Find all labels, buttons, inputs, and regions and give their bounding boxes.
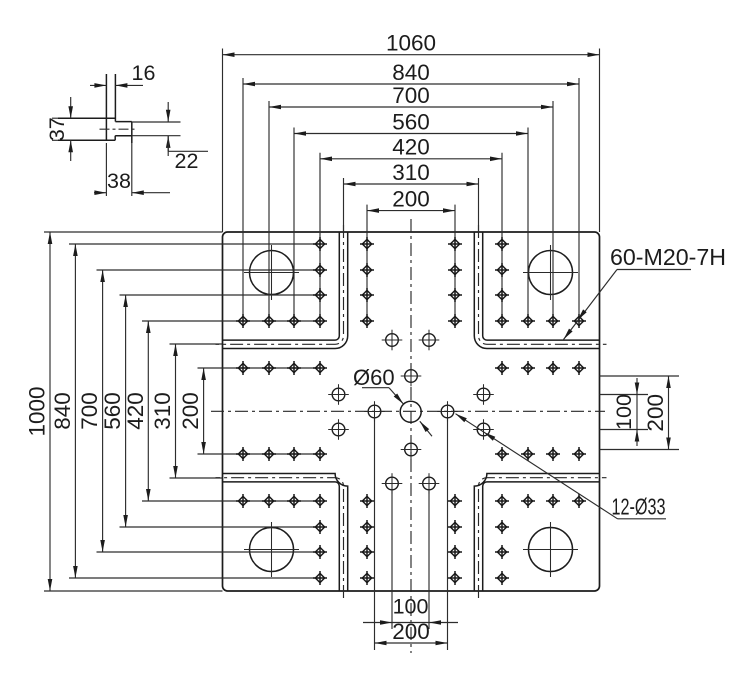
svg-text:60-M20-7H: 60-M20-7H [610,244,726,270]
O33 hole left pair T [328,384,349,405]
O33 hole top pair R [419,330,440,351]
extension line column 420R [501,153,503,321]
extension line plate top edge to 1000 dim [44,231,223,233]
O33 hole right middle [437,401,458,422]
T-slot contour top-left (solid outer) [223,232,340,340]
dimension 560 vertical [100,295,128,527]
extension line column 200R [454,205,456,321]
M20 tapped hole bottom-left block (294,501) [287,494,301,508]
M20 tapped hole top-right block (502,321) [495,314,509,328]
M20 tapped hole bottom strip (455,552) [448,545,462,559]
svg-text:22: 22 [175,149,199,173]
dimension 420 vertical [123,321,151,501]
dimension 200 horizontal [367,186,455,213]
M20 tapped hole right strip (553,368) [546,361,560,375]
M20 tapped hole left strip (320,368) [313,361,327,375]
M20 tapped hole left strip (269,454) [262,447,276,461]
M20 tapped hole bottom strip (455,527) [448,520,462,534]
extension line row 700B [97,551,321,553]
M20 tapped hole bottom-left block (243,501) [236,494,250,508]
extension line plate bottom edge to 1000 dim [44,590,223,592]
M20 tapped hole top-right block (528,321) [521,314,535,328]
leader O60 pointing at center hole [353,365,432,436]
dimension 560 horizontal [294,109,528,136]
dimension 200 vertical [178,368,206,454]
extension line column 200L [366,205,368,321]
svg-text:1000: 1000 [25,386,50,436]
M20 tapped hole top-right block (553,321) [546,314,560,328]
extension line column 700L [268,101,270,321]
M20 tapped hole right strip (528,454) [521,447,535,461]
svg-text:37: 37 [45,117,69,141]
extension line row 420T [142,320,320,322]
M20 tapped hole left strip (243,454) [236,447,250,461]
dimension 38 (slot bottom width) [94,143,170,196]
M20 tapped hole left strip (294,368) [287,361,301,375]
T-slot centerline top-left [216,225,344,344]
extension line hole col x392 down [391,489,393,629]
O33 hole lower middle [401,439,422,460]
extension line slot 310L [343,178,345,232]
M20 tapped hole top-right block (579,321) [572,314,586,328]
svg-text:420: 420 [392,135,430,160]
tie-bar hole bottom-right [523,522,578,577]
extension line hole row y376 [600,375,680,377]
extension line hole row y429.5 [600,429,649,431]
extension line row 840T [69,243,320,245]
M20 tapped hole bottom-left block (320,552) [313,545,327,559]
tie-bar hole top-right [523,245,578,300]
dimension 22 (slot lip height) [132,102,208,173]
M20 tapped hole bottom strip (367,501) [360,494,374,508]
dimension 700 vertical [77,270,105,552]
extension line hole row y449.5 [600,449,680,451]
extension line plate right edge to 1060 dim [599,49,601,233]
T-slot contour bottom-left (solid outer) [223,482,340,591]
svg-text:38: 38 [107,169,131,193]
T-slot contour top-left (solid inner) [223,232,348,349]
M20 tapped hole top strip (455,270) [448,263,462,277]
M20 tapped hole bottom strip (367,527) [360,520,374,534]
T-slot contour bottom-left (solid inner) [223,474,348,592]
dimension 1000 (plate height) [25,232,53,591]
platen plate outline [223,232,600,591]
svg-text:200: 200 [643,394,668,432]
extension line plate left edge to 1060 dim [222,49,224,233]
O33 hole left pair B [328,419,349,440]
O33 hole upper middle [401,366,422,387]
dimension 100 vertical right [612,378,639,446]
extension line column 840R [578,78,580,321]
leader 12-O33 pointing at O33 holes [456,414,667,520]
M20 tapped hole top-left block (320,321) [313,314,327,328]
M20 tapped hole right strip (502,368) [495,361,509,375]
T-slot contour top-right (solid outer) [483,232,600,340]
detail view T-slot profile [58,74,132,143]
svg-text:200: 200 [178,392,203,430]
M20 tapped hole bottom-right block (502,527) [495,520,509,534]
horizontal centerline [211,410,605,412]
dimension 200 vertical right [643,376,671,450]
O33 hole left middle [364,401,385,422]
M20 tapped hole top-right block (502,244) [495,237,509,251]
leader 60-M20-7H pointing at M20 hole [564,244,727,340]
M20 tapped hole left strip (269,368) [262,361,276,375]
svg-text:200: 200 [392,619,430,644]
tie-bar hole top-left [244,245,299,300]
tie-bar hole bottom-left [244,522,299,577]
extension line row 560B [120,526,321,528]
M20 tapped hole right strip (579,368) [572,361,586,375]
M20 tapped hole bottom-left block (320,501) [313,494,327,508]
svg-text:12-Ø33: 12-Ø33 [612,494,666,520]
extension line hole col x429 down [428,489,430,629]
M20 tapped hole top-right block (502,270) [495,263,509,277]
svg-text:420: 420 [123,392,148,430]
extension line hole col x447.5 down [447,417,449,650]
M20 tapped hole bottom-right block (502,552) [495,545,509,559]
extension line row 200T [198,367,321,369]
svg-text:100: 100 [393,595,429,619]
extension line row 420B [142,500,320,502]
M20 tapped hole top-left block (294,321) [287,314,301,328]
svg-text:560: 560 [100,392,125,430]
dimension 16 (slot neck width) [90,61,155,88]
vertical centerline [410,219,412,653]
M20 tapped hole bottom strip (455,501) [448,494,462,508]
M20 tapped hole bottom-right block (502,578) [495,571,509,585]
dimension 100 horizontal bottom [363,595,458,625]
dimension 310 horizontal [344,160,479,187]
O33 hole bottom pair R [419,473,440,494]
dimension 1060 (plate width) [223,31,600,58]
M20 tapped hole bottom-right block (553,501) [546,494,560,508]
M20 tapped hole bottom-right block (579,501) [572,494,586,508]
extension line row 700T [97,269,321,271]
M20 tapped hole right strip (553,454) [546,447,560,461]
T-slot contour bottom-right (solid outer) [483,482,600,591]
O33 hole right pair T [473,384,494,405]
extension line slot 310B [170,477,223,479]
svg-text:840: 840 [392,60,430,85]
extension line slot 310R [478,178,480,232]
T-slot contour bottom-right (solid inner) [474,474,599,592]
T-slot contour top-right (solid inner) [474,232,599,349]
dimension 37 (slot depth) [45,97,73,161]
center hole O60 [400,401,421,422]
M20 tapped hole top strip (367,295) [360,288,374,302]
extension line column 420L [319,153,321,321]
dimension 420 horizontal [320,135,502,162]
M20 tapped hole left strip (243,368) [236,361,250,375]
M20 tapped hole bottom-left block (320,527) [313,520,327,534]
svg-text:560: 560 [392,109,430,134]
extension line row 840B [69,577,320,579]
M20 tapped hole top-right block (502,295) [495,288,509,302]
svg-text:700: 700 [77,392,102,430]
T-slot centerline top-right [479,225,607,344]
dimension 840 horizontal [243,60,579,87]
svg-text:1060: 1060 [386,31,436,56]
svg-text:100: 100 [612,394,636,430]
M20 tapped hole top-left block (320,270) [313,263,327,277]
M20 tapped hole top strip (367,270) [360,263,374,277]
M20 tapped hole top-left block (269,321) [262,314,276,328]
M20 tapped hole top-left block (320,244) [313,237,327,251]
extension line column 560L [293,128,295,322]
svg-text:310: 310 [392,160,430,185]
T-slot centerline bottom-right [479,478,607,598]
extension line slot 310T [170,343,223,345]
extension line hole row y394.5 [600,394,649,396]
M20 tapped hole top strip (455,244) [448,237,462,251]
O33 hole right pair B [473,419,494,440]
dimension 700 horizontal [269,83,553,110]
M20 tapped hole top strip (455,295) [448,288,462,302]
extension line row 560T [120,294,321,296]
M20 tapped hole top strip (367,244) [360,237,374,251]
M20 tapped hole top strip (367,321) [360,314,374,328]
M20 tapped hole top-left block (243,321) [236,314,250,328]
svg-text:310: 310 [150,392,175,430]
M20 tapped hole right strip (528,368) [521,361,535,375]
svg-text:840: 840 [50,392,75,430]
M20 tapped hole bottom-right block (528,501) [521,494,535,508]
dimension 840 vertical [50,244,78,578]
M20 tapped hole left strip (320,454) [313,447,327,461]
extension line column 560R [527,128,529,322]
M20 tapped hole top-left block (320,295) [313,288,327,302]
M20 tapped hole bottom-left block (269,501) [262,494,276,508]
extension line column 840L [242,78,244,321]
M20 tapped hole top strip (455,321) [448,314,462,328]
O33 hole bottom pair L [382,473,403,494]
M20 tapped hole bottom-right block (502,501) [495,494,509,508]
svg-text:Ø60: Ø60 [353,365,395,390]
M20 tapped hole bottom-left block (320,578) [313,571,327,585]
M20 tapped hole bottom strip (367,578) [360,571,374,585]
M20 tapped hole bottom strip (455,578) [448,571,462,585]
detail view slot centerline [100,128,138,130]
M20 tapped hole bottom strip (367,552) [360,545,374,559]
extension line hole col x374.5 down [374,417,376,650]
extension line row 200B [198,453,321,455]
T-slot centerline bottom-left [216,478,344,598]
svg-text:200: 200 [392,186,430,211]
M20 tapped hole right strip (579,454) [572,447,586,461]
svg-text:700: 700 [392,83,430,108]
M20 tapped hole right strip (502,454) [495,447,509,461]
dimension 200 horizontal bottom [375,619,448,645]
M20 tapped hole left strip (294,454) [287,447,301,461]
O33 hole top pair L [382,330,403,351]
dimension 310 vertical [150,344,178,478]
extension line column 700R [552,101,554,321]
svg-text:16: 16 [132,61,156,85]
